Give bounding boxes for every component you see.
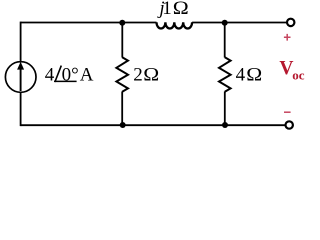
resistor R1 zigzag (2 ohm) (116, 57, 128, 92)
terminal top (open circle) (287, 19, 294, 26)
current source arrow shaft (20, 69, 22, 92)
wire bottom segment (21, 124, 286, 126)
svg-text:Ω: Ω (143, 65, 159, 86)
svg-text:1: 1 (162, 0, 172, 19)
inductor L1 (157, 22, 193, 28)
wire 2-ohm branch upper (121, 23, 123, 58)
wire 4-ohm branch lower (224, 92, 226, 126)
svg-text:Ω: Ω (246, 65, 262, 86)
svg-text:oc: oc (292, 67, 305, 82)
wire left vertical bottom (20, 92, 22, 126)
wire left vertical top (20, 22, 22, 62)
current source I1 circle (5, 62, 36, 93)
plus sign of Voc (284, 34, 291, 41)
svg-text:0°: 0° (62, 64, 79, 85)
wire 4-ohm branch upper (224, 23, 226, 58)
terminal bottom (open circle) (286, 121, 293, 128)
svg-text:A: A (80, 64, 94, 85)
current source arrowhead (17, 62, 24, 70)
node B (top of 4-ohm branch) (222, 20, 228, 26)
svg-text:Ω: Ω (173, 0, 189, 18)
wire top-left segment (21, 22, 157, 24)
wire top-right segment (192, 22, 287, 24)
wire 2-ohm branch lower (121, 92, 123, 126)
svg-text:4: 4 (236, 65, 246, 86)
angle underline (54, 80, 77, 82)
angle slash of phasor notation (55, 66, 61, 82)
svg-text:2: 2 (133, 65, 143, 86)
node A (top of 2-ohm branch) (119, 20, 125, 26)
svg-text:4: 4 (45, 64, 55, 85)
resistor R2 zigzag (4 ohm) (219, 57, 231, 92)
minus sign of Voc (284, 111, 291, 113)
node C (bottom of 2-ohm branch) (120, 122, 126, 128)
node D (bottom of 4-ohm branch) (222, 122, 228, 128)
